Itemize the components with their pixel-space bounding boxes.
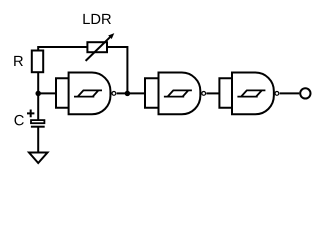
- gate U2 input bracket (both inputs tied): [145, 78, 159, 107]
- nand gate U2 body: [159, 73, 201, 115]
- nand gate U1 body: [69, 73, 111, 115]
- hysteresis symbol U2: [164, 90, 192, 96]
- label C: [14, 115, 23, 125]
- hysteresis symbol U3: [237, 90, 265, 96]
- wire from R top to LDR left terminal: [38, 47, 87, 51]
- node A junction dot: [35, 91, 41, 97]
- wire gate output to gate U3 input: [206, 92, 219, 94]
- capacitor C plus sign: [27, 110, 34, 118]
- gate U2 output bubble: [202, 92, 206, 96]
- output terminal: [300, 88, 310, 98]
- LDR body (variable resistor box): [87, 42, 107, 52]
- wire R bottom through node A down to capacitor: [37, 72, 39, 120]
- gate U3 input bracket (both inputs tied): [219, 78, 232, 107]
- LDR arrow shaft: [86, 37, 110, 61]
- ground: [29, 153, 48, 164]
- label LDR: [83, 14, 111, 24]
- wire node A to gate U1 input bracket: [38, 92, 56, 94]
- gate U1 output bubble: [112, 92, 116, 96]
- wire gate output to gate U2 input: [117, 92, 145, 94]
- hysteresis symbol U1: [74, 90, 102, 96]
- label R: [14, 56, 23, 66]
- wire capacitor to ground: [37, 127, 39, 152]
- capacitor C top plate (boxed electrode): [31, 120, 44, 123]
- capacitor C bottom plate: [31, 126, 45, 128]
- wire gate U3 output to terminal: [280, 92, 300, 94]
- gate U1 input bracket (both inputs tied): [56, 78, 69, 107]
- node B junction dot: [125, 91, 130, 97]
- LDR arrowhead: [108, 33, 114, 39]
- gate U3 output bubble: [275, 92, 279, 96]
- wire from LDR right terminal down to node B: [107, 47, 127, 92]
- resistor R: [32, 51, 43, 73]
- nand gate U3 body: [232, 73, 274, 115]
